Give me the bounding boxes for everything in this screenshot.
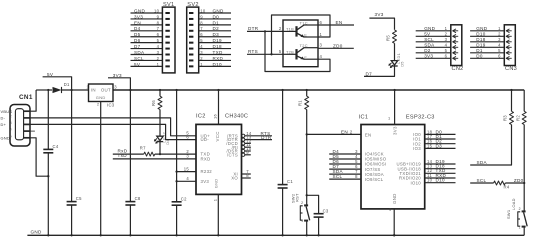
wire R3 to SDA stub bbox=[470, 125, 511, 165]
junction R6 top bbox=[159, 89, 161, 91]
svg-text:6: 6 bbox=[200, 32, 203, 37]
junction C4 top bbox=[47, 89, 49, 91]
svg-text:C3: C3 bbox=[323, 208, 329, 213]
CN2 pin 2 (5V) bbox=[416, 35, 451, 37]
IC1 pin 6 IO7/SS bbox=[329, 168, 361, 170]
svg-text:SW1: SW1 bbox=[506, 210, 511, 219]
svg-text:7: 7 bbox=[200, 26, 203, 31]
connector CN2 bbox=[451, 25, 462, 66]
resistor R2 bbox=[522, 111, 526, 124]
svg-text:EN: EN bbox=[336, 20, 343, 25]
svg-text:GND: GND bbox=[424, 26, 435, 31]
CN2 pin 5 (D2) bbox=[416, 52, 451, 54]
svg-text:GND: GND bbox=[392, 193, 397, 204]
svg-text:5V: 5V bbox=[134, 62, 141, 67]
svg-text:D10: D10 bbox=[213, 62, 222, 67]
svg-text:1: 1 bbox=[498, 26, 501, 31]
connector CN3 bbox=[504, 25, 515, 66]
svg-text:6: 6 bbox=[498, 53, 501, 58]
capacitor C3 bbox=[314, 213, 324, 215]
wire down to SW1 bbox=[523, 183, 525, 212]
SV2 pin 3 wire (TXD) bbox=[199, 54, 231, 56]
wire to C3 bbox=[307, 195, 319, 213]
IC IC2 CH340C box bbox=[196, 124, 242, 194]
svg-text:2: 2 bbox=[200, 56, 203, 61]
svg-text:10: 10 bbox=[154, 8, 160, 13]
junction R1 top bbox=[306, 89, 308, 91]
svg-text:1: 1 bbox=[86, 84, 89, 89]
CN2 pin 3 (SCL) bbox=[416, 41, 451, 43]
CN2 pin 4 (SDA) bbox=[416, 46, 451, 48]
resistor R3 bbox=[511, 90, 513, 111]
svg-text:D18: D18 bbox=[476, 37, 485, 42]
svg-text:D6: D6 bbox=[134, 38, 141, 43]
IC1 pin 18 IO0 bbox=[425, 133, 456, 135]
CN1 pin 4 bbox=[24, 130, 30, 132]
svg-text:D5: D5 bbox=[134, 32, 141, 37]
svg-text:XO: XO bbox=[231, 176, 238, 181]
svg-text:3: 3 bbox=[157, 50, 160, 55]
svg-text:D7: D7 bbox=[134, 44, 141, 49]
junction C3 branch bbox=[306, 194, 308, 196]
IC1 pin 11 RXD/IO20 bbox=[425, 177, 456, 179]
svg-text:15: 15 bbox=[427, 143, 433, 148]
svg-text:8: 8 bbox=[246, 173, 249, 178]
svg-text:2: 2 bbox=[519, 207, 521, 211]
svg-text:2: 2 bbox=[350, 129, 353, 134]
svg-text:R7: R7 bbox=[140, 145, 146, 150]
svg-text:8: 8 bbox=[157, 20, 160, 25]
svg-text:RXD: RXD bbox=[201, 157, 211, 162]
wire CN1 D- to IC2 UD+ bbox=[30, 118, 196, 136]
svg-text:SCL: SCL bbox=[333, 174, 343, 179]
svg-text:5: 5 bbox=[200, 38, 203, 43]
svg-text:ESP32-C3: ESP32-C3 bbox=[406, 114, 435, 120]
svg-text:2: 2 bbox=[445, 31, 448, 36]
svg-text:9: 9 bbox=[157, 14, 160, 19]
SV1 pin 10 wire (GND) bbox=[131, 12, 163, 14]
svg-text:3: 3 bbox=[320, 43, 323, 48]
resistor R5 bbox=[393, 30, 397, 43]
svg-text:1: 1 bbox=[320, 32, 323, 37]
CN1 pin 3 bbox=[24, 123, 30, 125]
svg-text:/CTS: /CTS bbox=[227, 152, 238, 157]
IC1 3V3 pin top bbox=[394, 90, 396, 125]
CN3 pin 4 (D19) bbox=[470, 46, 504, 48]
net 3V3 stub at regulator output bbox=[108, 78, 130, 90]
svg-text:TxD: TxD bbox=[118, 153, 128, 158]
svg-text:2: 2 bbox=[279, 26, 282, 31]
resistor R4 bbox=[494, 181, 506, 185]
IC2 VCC pin 16 bbox=[218, 90, 220, 124]
IC1 pin 17 IO1 bbox=[425, 138, 456, 140]
svg-text:SDA: SDA bbox=[424, 42, 435, 47]
svg-text:IO9/SCL: IO9/SCL bbox=[365, 177, 384, 182]
svg-text:T1C: T1C bbox=[300, 20, 308, 25]
SV1 pin 1 wire (5V) bbox=[131, 65, 163, 67]
svg-text:1: 1 bbox=[445, 26, 448, 31]
wire diode to regulator IN bbox=[62, 89, 89, 91]
svg-text:D7: D7 bbox=[366, 72, 373, 77]
CN2 pin 6 (3V3) bbox=[416, 57, 451, 59]
svg-text:LOAD: LOAD bbox=[511, 198, 516, 210]
pushbutton SW2 (RST) bbox=[304, 204, 308, 206]
CN1 VBUS wire up to diode bbox=[30, 90, 36, 111]
svg-text:C4: C4 bbox=[53, 144, 59, 149]
svg-text:5V: 5V bbox=[47, 72, 54, 77]
CN1 pin 1 bbox=[24, 110, 30, 112]
svg-text:2: 2 bbox=[157, 56, 160, 61]
svg-text:SCL: SCL bbox=[424, 37, 434, 42]
svg-text:3: 3 bbox=[10, 121, 12, 125]
svg-text:3: 3 bbox=[200, 50, 203, 55]
svg-text:D18: D18 bbox=[213, 44, 222, 49]
IC1 pin 5 IO6/MOSI bbox=[329, 163, 361, 165]
svg-text:R232: R232 bbox=[201, 169, 213, 174]
resistor R1 bbox=[306, 90, 308, 96]
svg-text:3: 3 bbox=[114, 84, 117, 89]
svg-text:5: 5 bbox=[10, 134, 12, 138]
svg-text:RTS: RTS bbox=[248, 49, 258, 54]
svg-text:3V3: 3V3 bbox=[201, 179, 210, 184]
SV1 pin 7 wire (D4) bbox=[131, 30, 163, 32]
CN1 GND wire down bbox=[30, 138, 48, 176]
transistor T1 bbox=[283, 30, 297, 32]
svg-text:3V3: 3V3 bbox=[424, 53, 433, 58]
svg-text:IN: IN bbox=[91, 88, 96, 93]
svg-text:IC2: IC2 bbox=[196, 114, 206, 120]
regulator IC3 bbox=[89, 84, 114, 102]
junction C1 top bbox=[281, 89, 283, 91]
svg-text:R2: R2 bbox=[515, 115, 520, 121]
wire T2-emitter to DTR (bottom wrap) bbox=[265, 31, 330, 71]
svg-text:7: 7 bbox=[157, 26, 160, 31]
GND rail bbox=[27, 234, 524, 236]
GND rail corner to SW1 bbox=[47, 234, 49, 236]
IC1 pin 13 USB-/IO18 bbox=[425, 168, 456, 170]
svg-text:5: 5 bbox=[279, 49, 282, 54]
IC1 pin 16 IO2 bbox=[425, 143, 456, 145]
junction R3 top bbox=[510, 89, 512, 91]
svg-text:1: 1 bbox=[388, 116, 390, 121]
svg-text:CH340C: CH340C bbox=[225, 114, 248, 120]
3V3 feed column to IC2 pin4 bbox=[176, 90, 178, 202]
IC1 pin 10 IO10 bbox=[425, 182, 456, 184]
IC1 pin 7 IO8/SDA bbox=[329, 173, 361, 175]
svg-text:D10: D10 bbox=[436, 178, 445, 183]
pushbutton SW1 (LOAD) bbox=[522, 210, 526, 212]
svg-text:DTR: DTR bbox=[248, 26, 259, 31]
IC2 R232 pin wire bbox=[177, 171, 196, 173]
svg-text:C8: C8 bbox=[135, 196, 141, 201]
junction LED2/R7 bbox=[159, 153, 161, 155]
svg-text:RST: RST bbox=[295, 193, 300, 202]
svg-text:4: 4 bbox=[498, 42, 501, 47]
wire VBUS to diode anode bbox=[36, 89, 52, 91]
svg-text:D2: D2 bbox=[213, 26, 220, 31]
svg-text:ZD0: ZD0 bbox=[333, 43, 343, 48]
svg-text:GND: GND bbox=[96, 95, 106, 100]
junction on RTS bbox=[270, 53, 272, 55]
svg-text:1: 1 bbox=[519, 225, 521, 229]
svg-text:4: 4 bbox=[157, 44, 160, 49]
svg-text:SDA: SDA bbox=[134, 50, 145, 55]
svg-text:5V: 5V bbox=[424, 31, 431, 36]
svg-text:GND: GND bbox=[31, 229, 42, 234]
capacitor C8 bbox=[129, 90, 131, 201]
svg-text:C5: C5 bbox=[76, 196, 82, 201]
svg-text:SCL: SCL bbox=[134, 56, 144, 61]
junction 3V3/C6 bbox=[129, 89, 131, 91]
IC1 pin 4 IO5/MISO bbox=[329, 158, 361, 160]
CN2 pin 1 (GND) bbox=[416, 30, 451, 32]
junction 5V stub bbox=[70, 89, 72, 91]
SV1 pin 3 wire (SDA) bbox=[131, 54, 163, 56]
LED LED2 bbox=[157, 136, 163, 140]
CN3 pin 5 (D1) bbox=[470, 52, 504, 54]
wire LED2 to RXD line bbox=[159, 142, 161, 154]
svg-text:1: 1 bbox=[212, 199, 217, 201]
svg-text:IC3: IC3 bbox=[107, 102, 115, 107]
net 5V stub bbox=[43, 77, 72, 90]
junction C4/GND bbox=[47, 175, 49, 177]
net ZD0 stub at T2 collector bbox=[318, 47, 354, 49]
IC1 pin 14 USB+/IO19 bbox=[425, 163, 456, 165]
svg-text:3: 3 bbox=[445, 37, 448, 42]
wire R6 to LED2 bbox=[159, 110, 161, 137]
svg-text:E: E bbox=[304, 55, 307, 60]
transistor block outline bbox=[283, 20, 318, 67]
CN3 pin 2 (D10) bbox=[470, 35, 504, 37]
svg-text:6: 6 bbox=[186, 134, 189, 139]
svg-text:9: 9 bbox=[200, 14, 203, 19]
SV1 pin 6 wire (D5) bbox=[131, 36, 163, 38]
svg-text:VCC: VCC bbox=[215, 131, 220, 141]
svg-text:R6: R6 bbox=[151, 100, 156, 106]
svg-text:CN3: CN3 bbox=[505, 66, 517, 72]
svg-text:5: 5 bbox=[498, 48, 501, 53]
wire T1-emitter to RTS (top wrap) bbox=[272, 15, 331, 54]
net EN wire to IC1 bbox=[307, 133, 361, 135]
capacitor C4 bbox=[47, 90, 49, 149]
svg-text:D19: D19 bbox=[213, 38, 222, 43]
svg-text:5: 5 bbox=[157, 38, 160, 43]
svg-text:D1: D1 bbox=[64, 82, 70, 87]
SV1 pin 5 wire (D6) bbox=[131, 42, 163, 44]
svg-text:8: 8 bbox=[200, 20, 203, 25]
IC1 GND pin bottom bbox=[393, 209, 395, 235]
diode D1 bbox=[53, 87, 62, 93]
svg-text:3: 3 bbox=[186, 154, 189, 159]
svg-text:R4: R4 bbox=[504, 184, 510, 189]
svg-text:E: E bbox=[304, 33, 307, 38]
IC3 GND pin wire bbox=[100, 102, 102, 236]
svg-text:ZD0: ZD0 bbox=[514, 178, 524, 183]
SV1 pin 2 wire (SCL) bbox=[131, 59, 163, 61]
CN3 pin 3 (D18) bbox=[470, 41, 504, 43]
svg-text:4: 4 bbox=[10, 128, 12, 132]
IC1 pin 3 IO4/SCK bbox=[329, 153, 361, 155]
capacitor C1 bbox=[282, 90, 284, 184]
svg-text:D+: D+ bbox=[1, 122, 7, 127]
svg-text:D3: D3 bbox=[436, 143, 443, 148]
SV2 pin 7 wire (D2) bbox=[199, 30, 231, 32]
svg-text:D19: D19 bbox=[476, 42, 485, 47]
svg-text:D4: D4 bbox=[134, 26, 141, 31]
svg-text:RXD: RXD bbox=[213, 56, 224, 61]
svg-text:SDA: SDA bbox=[477, 160, 488, 165]
wire CN1 D+ to IC2 UD- bbox=[30, 124, 196, 139]
SV2 pin 8 wire (D1) bbox=[199, 24, 231, 26]
svg-text:6: 6 bbox=[320, 20, 323, 25]
SV1 pin 9 wire (3V3) bbox=[131, 18, 163, 20]
IC1 pin 15 IO3 bbox=[425, 147, 456, 149]
svg-text:D-: D- bbox=[1, 116, 6, 121]
IC1 pin 8 IO9/SCL bbox=[329, 178, 361, 180]
svg-text:EN: EN bbox=[341, 129, 348, 134]
svg-text:D1: D1 bbox=[213, 20, 220, 25]
capacitor C2 bbox=[172, 201, 182, 203]
svg-text:D0: D0 bbox=[213, 14, 220, 19]
svg-text:3V3: 3V3 bbox=[113, 73, 122, 78]
svg-text:4: 4 bbox=[445, 42, 448, 47]
svg-text:5: 5 bbox=[445, 48, 448, 53]
svg-text:OUT: OUT bbox=[101, 88, 111, 93]
svg-text:R5: R5 bbox=[385, 35, 390, 41]
svg-text:D0: D0 bbox=[476, 53, 483, 58]
svg-text:R3: R3 bbox=[503, 115, 508, 121]
svg-text:1: 1 bbox=[301, 219, 303, 223]
svg-text:GND: GND bbox=[476, 26, 487, 31]
wire R1 to EN line bbox=[306, 110, 308, 135]
connector CN1 mini-USB body bbox=[10, 105, 30, 147]
net EN stub at T1 collector bbox=[318, 24, 354, 26]
IC IC1 ESP32-C3 box bbox=[361, 125, 425, 209]
IC2 GND pin 1 bbox=[217, 194, 219, 235]
svg-text:TXD: TXD bbox=[213, 50, 223, 55]
svg-text:4: 4 bbox=[200, 44, 203, 49]
IC1 pin 12 TXD/IO21 bbox=[425, 172, 456, 174]
resistor R6 bbox=[159, 90, 161, 96]
capacitor C5 bbox=[71, 90, 73, 201]
svg-text:2: 2 bbox=[10, 115, 12, 119]
svg-text:IO3: IO3 bbox=[413, 146, 421, 151]
svg-text:UD-: UD- bbox=[201, 137, 210, 142]
transistor T2 bbox=[283, 53, 297, 55]
CN1 ID pin stub bbox=[30, 130, 35, 132]
IC2 3V3 pin wire / C2 junction bbox=[177, 180, 196, 182]
svg-text:EN: EN bbox=[365, 132, 372, 137]
svg-text:6: 6 bbox=[445, 53, 448, 58]
svg-text:D10: D10 bbox=[476, 31, 485, 36]
CN3 pin 6 (D0) bbox=[470, 57, 504, 59]
svg-text:IO10: IO10 bbox=[410, 180, 421, 185]
wire R5 to LED1 bbox=[394, 43, 396, 60]
svg-text:6: 6 bbox=[157, 32, 160, 37]
svg-text:16: 16 bbox=[213, 114, 218, 119]
svg-text:10: 10 bbox=[427, 178, 433, 183]
svg-text:2: 2 bbox=[301, 201, 303, 205]
svg-text:T1B: T1B bbox=[286, 27, 294, 32]
CN1 pin 2 bbox=[24, 117, 30, 119]
svg-text:R1: R1 bbox=[298, 100, 303, 106]
svg-text:3V3: 3V3 bbox=[134, 14, 143, 19]
SV2 pin 10 wire (GND) bbox=[199, 12, 231, 14]
svg-text:3V3: 3V3 bbox=[375, 12, 384, 17]
net D7 stub below LED1 bbox=[364, 66, 395, 76]
svg-text:4: 4 bbox=[186, 176, 189, 181]
svg-text:CN2: CN2 bbox=[452, 66, 464, 72]
svg-text:2: 2 bbox=[498, 31, 501, 36]
net ZD0 at SW1 bbox=[505, 182, 524, 184]
svg-text:D2: D2 bbox=[424, 48, 431, 53]
svg-text:D1: D1 bbox=[476, 48, 483, 53]
svg-text:IC1: IC1 bbox=[359, 114, 369, 120]
svg-text:D5: D5 bbox=[400, 61, 405, 67]
svg-text:3: 3 bbox=[498, 37, 501, 42]
wire EN down to SW2 bbox=[306, 134, 308, 204]
svg-text:2: 2 bbox=[97, 103, 99, 107]
SV1 pin 4 wire (D7) bbox=[131, 48, 163, 50]
svg-text:GND: GND bbox=[214, 179, 219, 189]
SV2 pin 4 wire (D18) bbox=[199, 48, 231, 50]
svg-text:8: 8 bbox=[355, 174, 358, 179]
svg-text:15: 15 bbox=[184, 166, 190, 171]
svg-text:4: 4 bbox=[320, 54, 323, 59]
3V3 rail bbox=[113, 89, 524, 91]
svg-text:GND: GND bbox=[134, 8, 145, 13]
SV2 pin 2 wire (RXD) bbox=[199, 59, 231, 61]
resistor R2 drop from rail bbox=[523, 90, 525, 111]
svg-text:9: 9 bbox=[389, 207, 391, 212]
LED LED1 bbox=[391, 61, 397, 65]
junction on DTR bbox=[264, 30, 266, 32]
SV2 pin 1 wire (D10) bbox=[199, 65, 231, 67]
resistor R7 bbox=[144, 152, 155, 156]
svg-text:SCL: SCL bbox=[477, 178, 487, 183]
svg-text:10: 10 bbox=[200, 8, 206, 13]
svg-text:C1: C1 bbox=[287, 179, 293, 184]
svg-text:DTR: DTR bbox=[261, 135, 272, 140]
svg-text:T2B: T2B bbox=[286, 50, 294, 55]
SV2 pin 5 wire (D19) bbox=[199, 42, 231, 44]
CN3 pin 1 (GND) bbox=[470, 30, 504, 32]
svg-text:1: 1 bbox=[200, 62, 203, 67]
CN1 pin 5 bbox=[24, 137, 30, 139]
junction ZD0/SW1 bbox=[523, 182, 525, 184]
svg-text:EN: EN bbox=[134, 20, 141, 25]
wire R2 down to ZD0 junction bbox=[523, 125, 525, 183]
svg-text:D3: D3 bbox=[213, 32, 220, 37]
svg-text:CN1: CN1 bbox=[19, 94, 33, 101]
SV1 pin 8 wire (EN) bbox=[131, 24, 163, 26]
svg-text:9: 9 bbox=[246, 150, 249, 155]
svg-text:T2C: T2C bbox=[300, 43, 308, 48]
svg-text:1: 1 bbox=[157, 62, 160, 67]
SV2 pin 9 wire (D0) bbox=[199, 18, 231, 20]
svg-text:3V3: 3V3 bbox=[393, 126, 398, 135]
wire R7 to IC2 TXD bbox=[155, 153, 196, 155]
svg-text:1: 1 bbox=[10, 108, 12, 112]
svg-text:GND: GND bbox=[213, 8, 224, 13]
SV2 pin 6 wire (D3) bbox=[199, 36, 231, 38]
svg-text:GND: GND bbox=[1, 135, 11, 140]
svg-text:C2: C2 bbox=[181, 196, 187, 201]
